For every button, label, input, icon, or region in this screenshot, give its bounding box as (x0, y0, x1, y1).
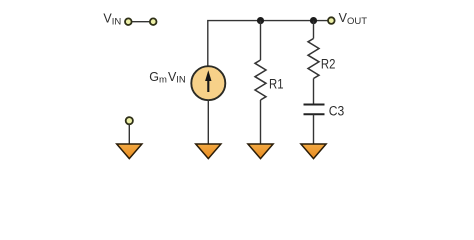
ground (input return) (117, 144, 142, 159)
resistor R2 (308, 39, 319, 79)
terminal input return (126, 117, 133, 124)
wire top rail (208, 21, 331, 66)
wire input return (128, 124, 130, 145)
node N2 (junction at R2 top) (310, 17, 317, 24)
wire current source bottom (207, 100, 209, 144)
wire R1 bottom (260, 100, 262, 145)
capacitor C3 (304, 105, 325, 115)
terminal VOUT (328, 17, 335, 24)
ground (C3) (301, 144, 326, 159)
svg-text:C3: C3 (329, 104, 345, 119)
wire R2 to C3 (313, 79, 315, 105)
svg-text:R1: R1 (269, 76, 284, 91)
wire R2 top (313, 21, 315, 39)
wire C3 bottom (313, 115, 315, 145)
ground (R1) (248, 144, 273, 159)
current source U1 GmVIN (191, 66, 225, 100)
svg-text:R2: R2 (321, 57, 336, 72)
node N1 (junction at R1 top) (257, 17, 264, 24)
resistor R1 (255, 60, 266, 100)
wire VIN jumper (128, 21, 153, 23)
ground (current source) (196, 144, 221, 159)
terminal VIN-b (150, 18, 157, 25)
terminal VIN-a (125, 18, 132, 25)
wire R1 top (260, 21, 262, 60)
